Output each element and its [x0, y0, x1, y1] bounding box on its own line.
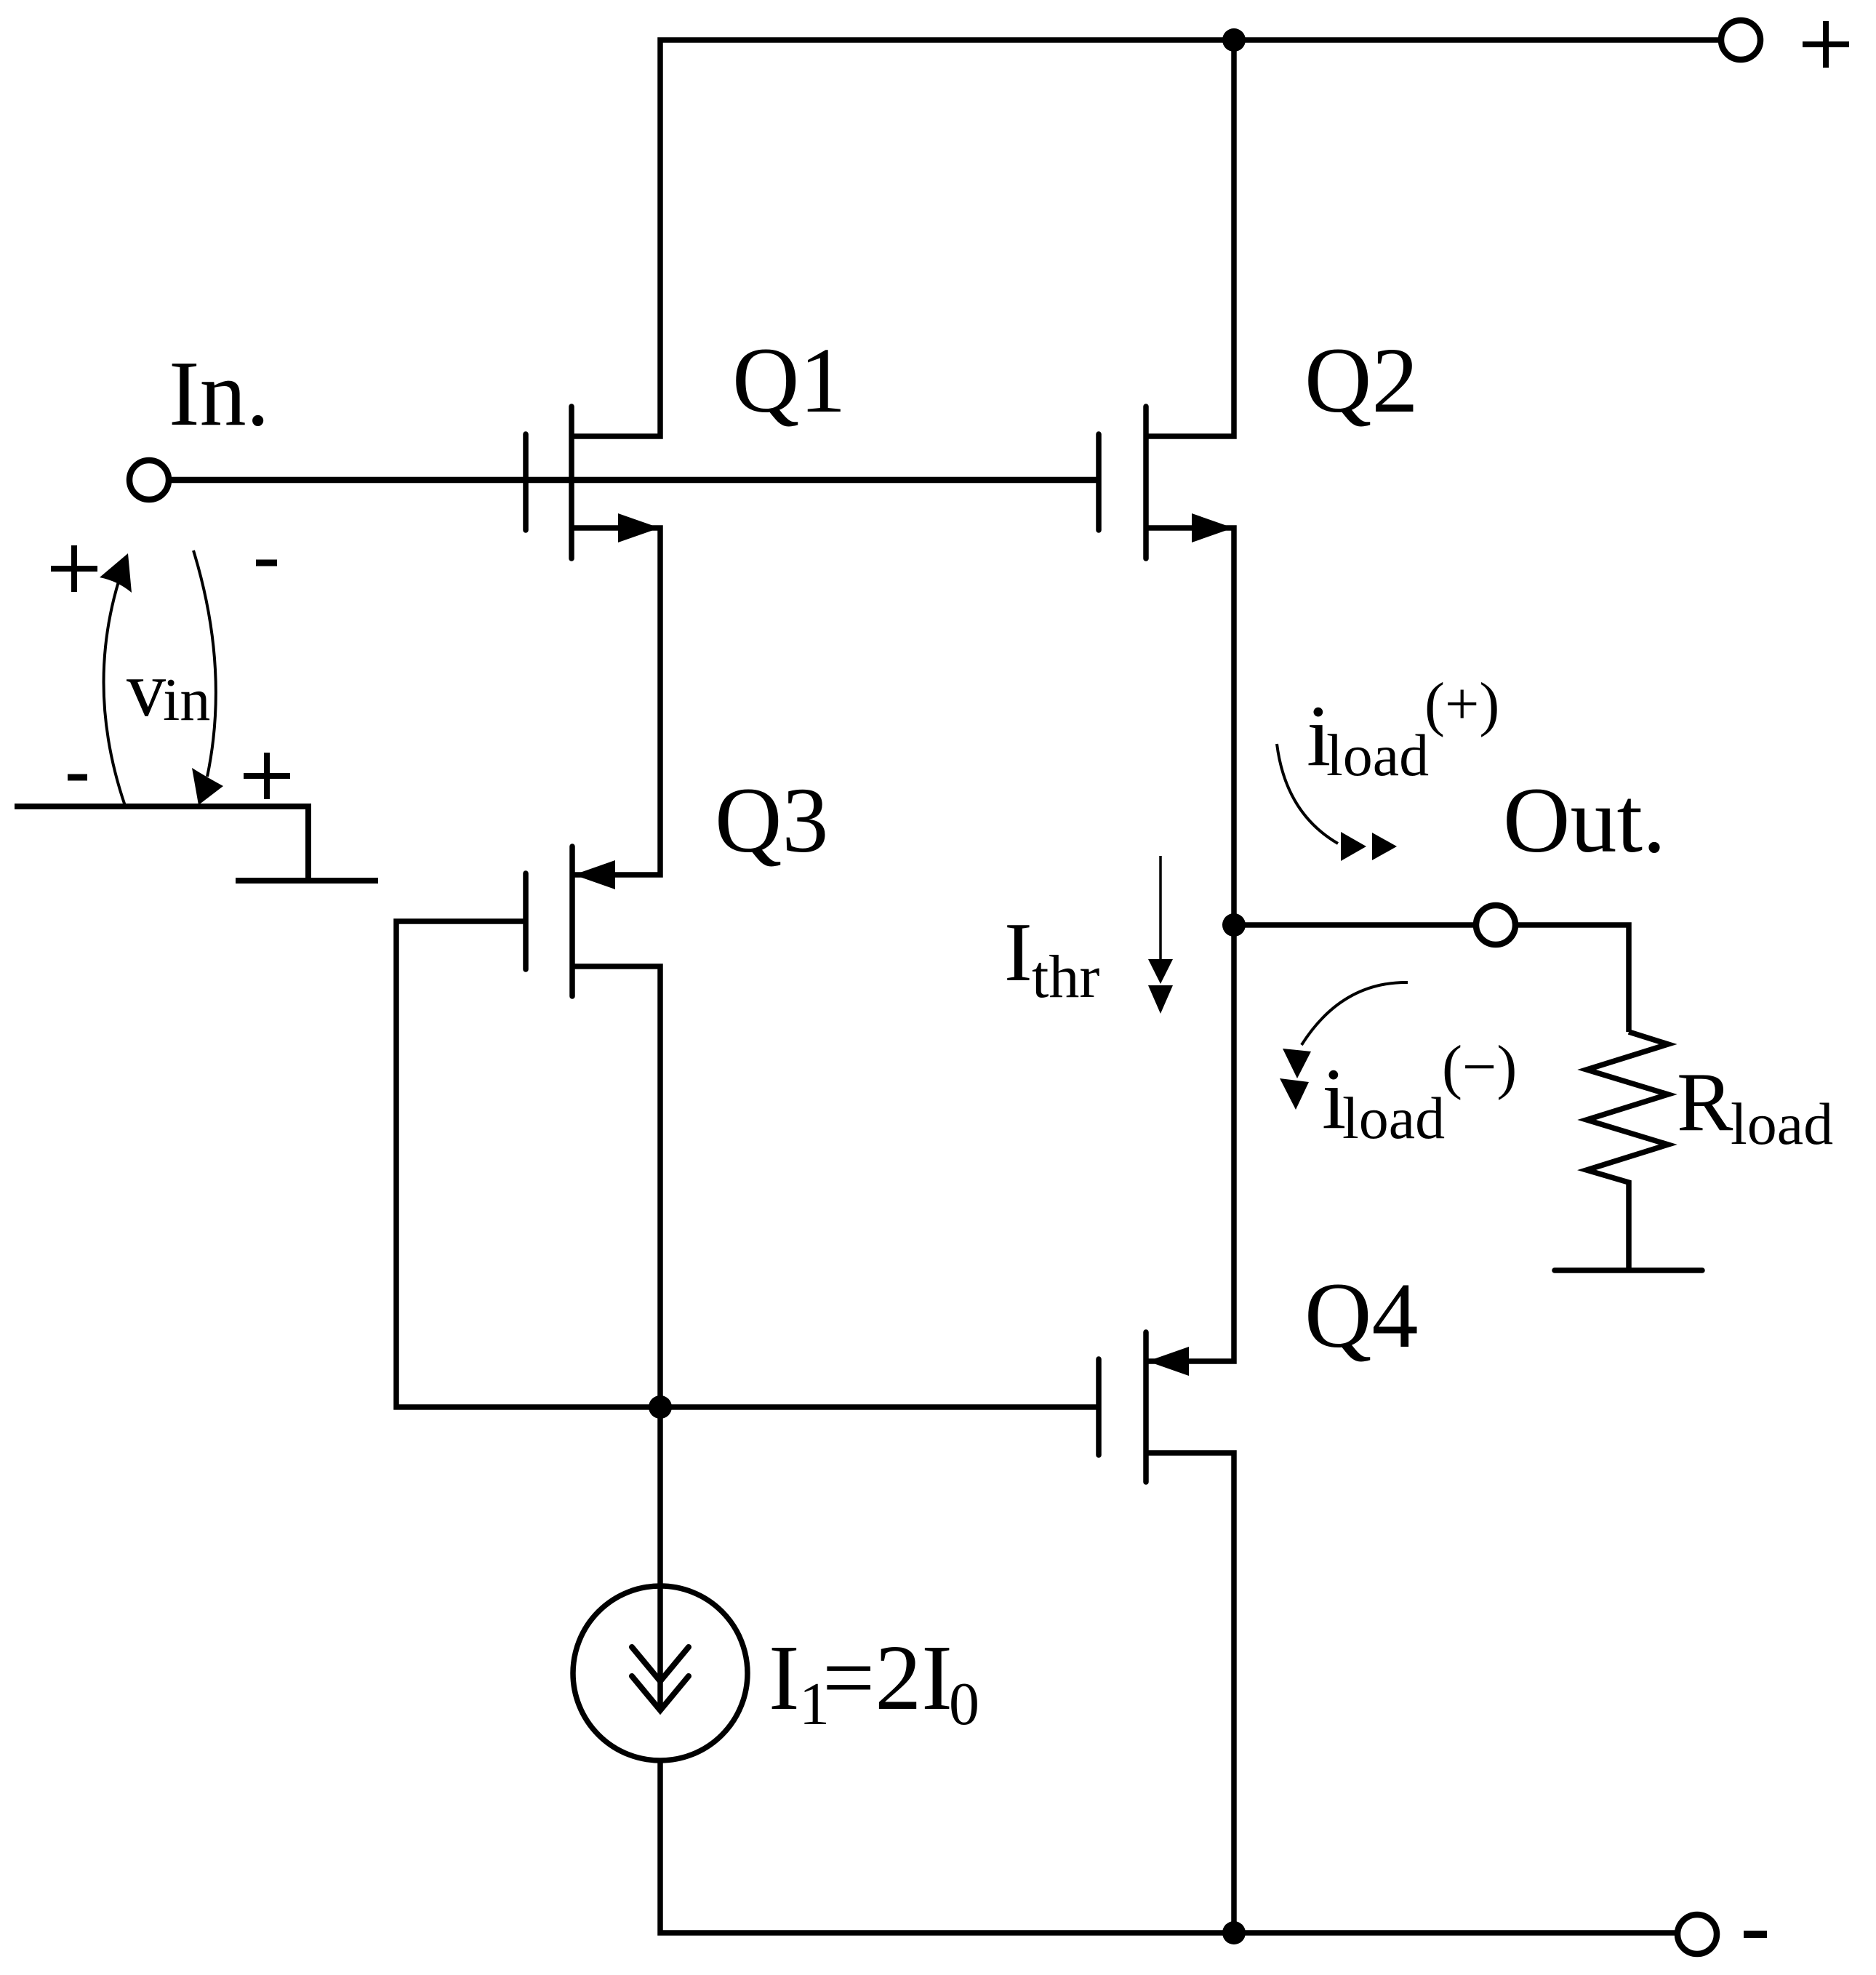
label vin: [127, 646, 210, 734]
svg-text:I: I: [769, 1626, 800, 1729]
label - negative supply: [1744, 1931, 1767, 1938]
label iload-: [1322, 1033, 1517, 1151]
transistor Q1: [526, 406, 660, 875]
wire Q3 gate loop to mirror node and Q4 gate: [396, 921, 1099, 1407]
svg-text:=2I: =2I: [822, 1626, 953, 1729]
node output junction: [1222, 913, 1246, 937]
svg-text:load: load: [1342, 1085, 1445, 1151]
label + positive supply: [1803, 21, 1849, 68]
svg-text:R: R: [1677, 1056, 1733, 1149]
iload- arc arrow: [1302, 982, 1408, 1045]
svg-text:(+): (+): [1424, 670, 1499, 738]
wire output node to Out terminal: [1234, 922, 1476, 928]
label Rload: [1677, 1056, 1833, 1157]
terminal Out.: [1476, 905, 1515, 945]
svg-text:load: load: [1731, 1091, 1833, 1157]
label I1=2I0: [769, 1626, 979, 1738]
terminal positive supply: [1721, 20, 1760, 60]
node bottom junction: [1222, 1921, 1246, 1944]
node top junction: [1222, 28, 1246, 52]
wire In. gate line to Q1 and Q2 gates: [169, 477, 1099, 484]
svg-text:Q3: Q3: [715, 769, 828, 872]
svg-text:0: 0: [949, 1670, 979, 1738]
current source I1: [573, 1586, 747, 1760]
transistor Q2: [1099, 406, 1234, 1361]
node mirror junction: [649, 1395, 672, 1419]
svg-text:in: in: [163, 666, 210, 734]
transistor Q4: [1099, 1332, 1234, 1933]
vin right arc arrow down: [193, 550, 216, 777]
label iload+: [1307, 670, 1499, 788]
svg-text:load: load: [1326, 722, 1429, 788]
svg-text:Q4: Q4: [1304, 1264, 1418, 1367]
svg-text:I: I: [1004, 906, 1033, 999]
ground bar: [1555, 1267, 1702, 1273]
svg-text:thr: thr: [1032, 943, 1099, 1011]
Ithr arrow: [1159, 856, 1162, 967]
svg-text:In.: In.: [169, 342, 270, 445]
resistor Rload: [1587, 1032, 1668, 1270]
svg-text:(−): (−): [1442, 1033, 1517, 1101]
vin step waveform: [15, 806, 378, 881]
transistor Q3: [526, 846, 660, 1710]
vin left arc arrow up: [104, 582, 125, 806]
label vin + bottom right: [244, 753, 290, 799]
wire top rail with left drop to Q1 drain: [572, 40, 1721, 436]
svg-text:Q1: Q1: [732, 329, 846, 432]
label vin + top left: [51, 545, 97, 592]
svg-text:Out.: Out.: [1503, 769, 1666, 872]
wire current source bottom to negative rail: [660, 1761, 1677, 1933]
iload+ arc arrow: [1277, 744, 1338, 844]
label Ithr: [1004, 906, 1099, 1011]
wire right drop from top junction to Q2 drain: [1146, 40, 1234, 436]
terminal In.: [129, 460, 169, 500]
terminal negative supply: [1677, 1915, 1717, 1954]
label vin - bottom left: [68, 774, 87, 781]
svg-text:v: v: [127, 646, 166, 733]
svg-text:Q2: Q2: [1304, 329, 1418, 432]
wire Out terminal to Rload: [1515, 925, 1629, 1032]
label vin - top right: [256, 560, 277, 566]
